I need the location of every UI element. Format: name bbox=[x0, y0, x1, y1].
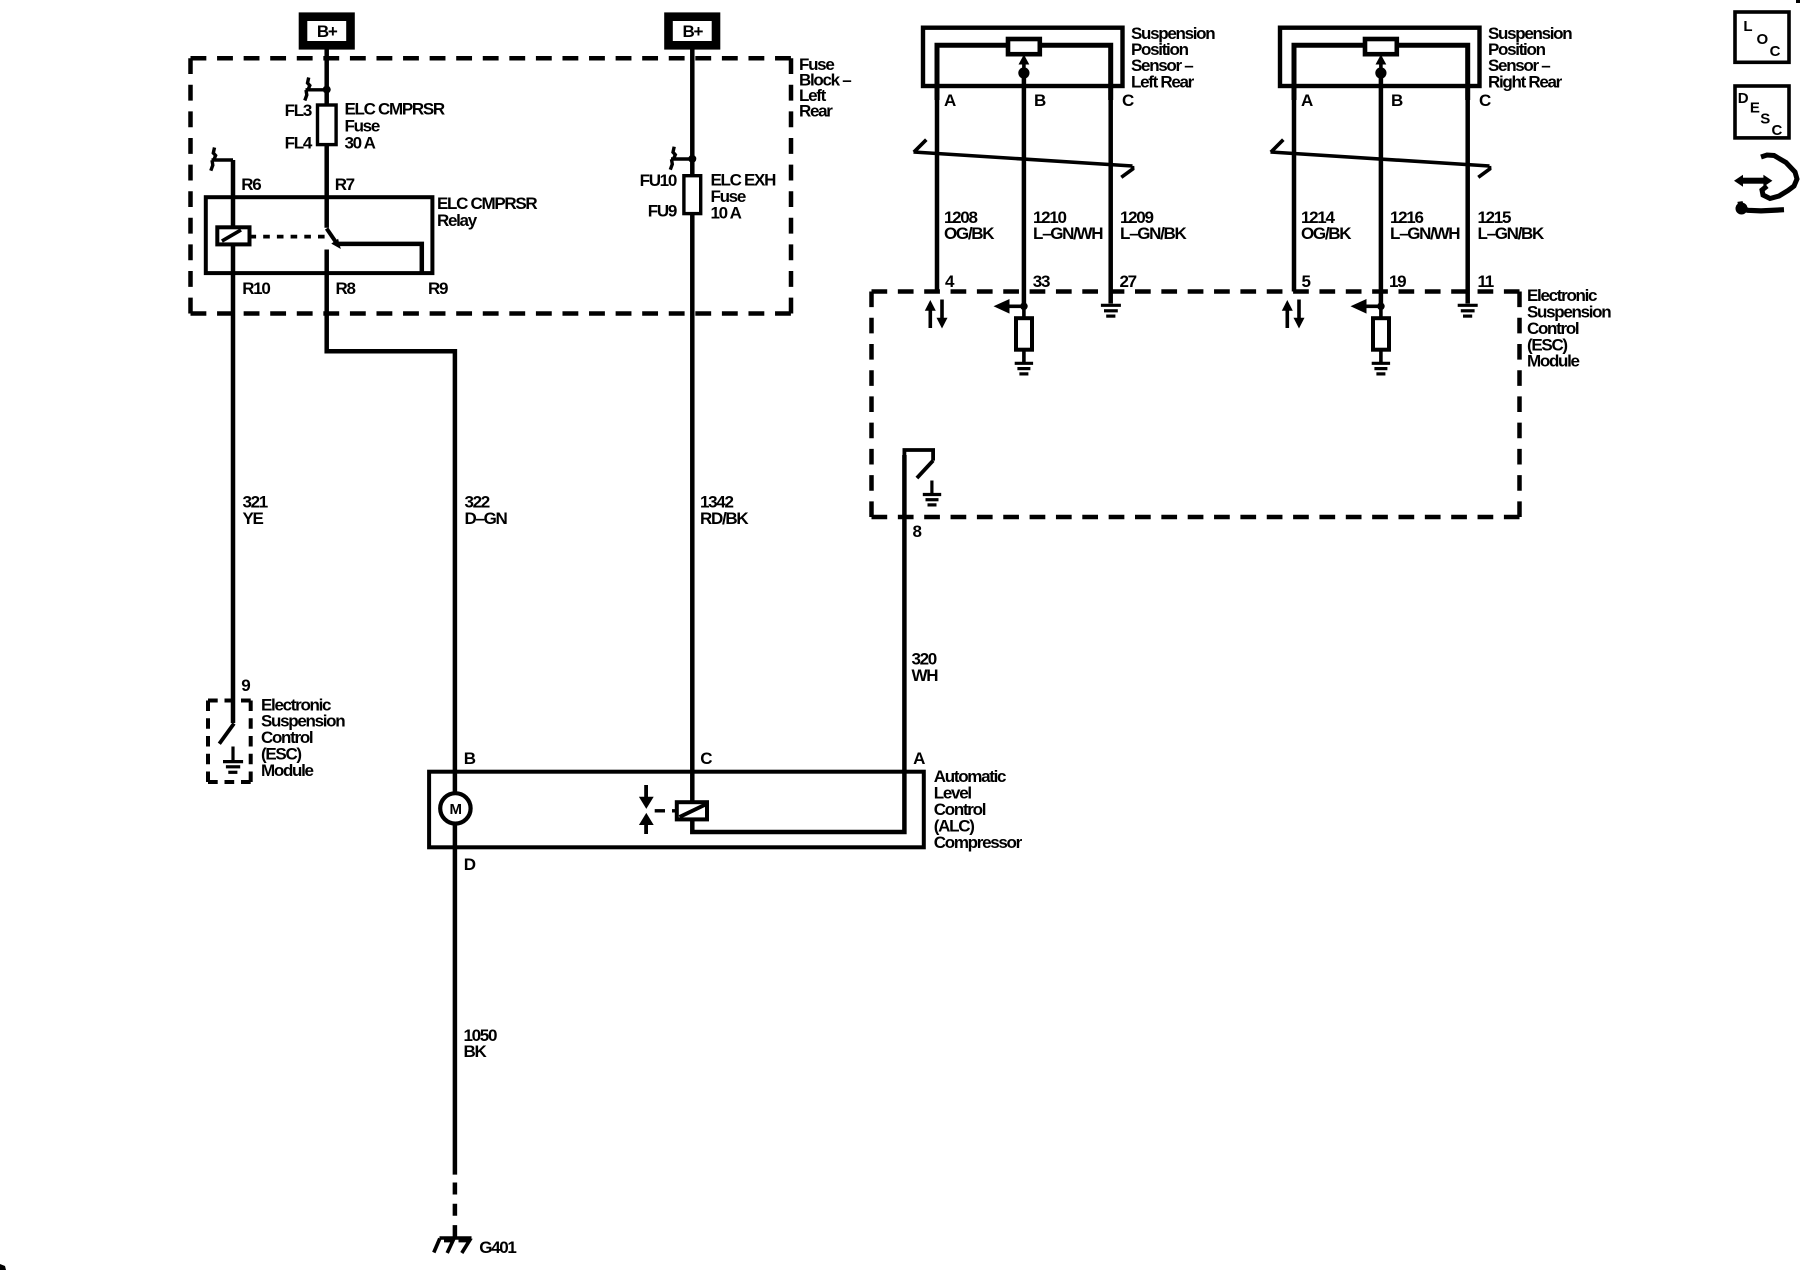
sensor LR wire C to pin 27 bbox=[1108, 86, 1113, 304]
power symbol B+ 1 bbox=[303, 17, 351, 46]
svg-text:D: D bbox=[1738, 90, 1749, 107]
wire ALC C to coil bbox=[690, 772, 695, 804]
wire label 320 WH bbox=[912, 649, 939, 684]
relay coil to switch dashed link bbox=[250, 235, 328, 239]
svg-text:BK: BK bbox=[464, 1042, 488, 1061]
ALC label bbox=[934, 767, 1023, 852]
svg-text:C: C bbox=[1772, 122, 1783, 139]
sensor RR label bbox=[1488, 24, 1572, 91]
sensor RR wire C to pin 11 bbox=[1465, 86, 1470, 304]
wire R6 into relay coil bbox=[231, 160, 236, 227]
wire label 1342 RD/BK bbox=[700, 492, 749, 527]
relay ELC CMPRSR box bbox=[206, 197, 433, 273]
wire R10 down to ESC module pin 9 bbox=[231, 273, 236, 723]
svg-text:Compressor: Compressor bbox=[934, 833, 1023, 852]
sensor RR wiper box bbox=[1365, 39, 1397, 54]
inline connector hook at FU10 feed bbox=[670, 147, 692, 170]
sensors and ESC module drawn in group 2 bbox=[872, 24, 1612, 772]
ground at ESC switch bbox=[923, 481, 941, 505]
corner speck bottom left bbox=[0, 1264, 6, 1270]
sensor LR wiper box bbox=[1008, 39, 1040, 54]
svg-text:RD/BK: RD/BK bbox=[700, 509, 749, 528]
svg-text:A: A bbox=[1301, 91, 1313, 110]
svg-text:C: C bbox=[1770, 43, 1781, 60]
svg-text:WH: WH bbox=[912, 666, 939, 685]
right margin icons bbox=[1734, 12, 1797, 215]
svg-text:YE: YE bbox=[243, 509, 264, 528]
pin numbers 5 19 11 bbox=[1302, 272, 1494, 291]
svg-text:L–GN/WH: L–GN/WH bbox=[1390, 224, 1460, 243]
fuse FU10/FU9 labels bbox=[640, 171, 776, 223]
svg-text:R10: R10 bbox=[242, 279, 270, 298]
svg-text:C: C bbox=[1122, 91, 1134, 110]
wire B+2 to fuse FU10 bbox=[690, 45, 695, 176]
sensor RR wire B to pin 19 bbox=[1379, 73, 1384, 307]
dashed wire to G401 bbox=[453, 1183, 458, 1237]
relay label bbox=[437, 194, 537, 230]
svg-text:O: O bbox=[1757, 31, 1769, 48]
LOC icon box bbox=[1735, 12, 1789, 62]
svg-text:FU9: FU9 bbox=[648, 202, 677, 221]
svg-text:L: L bbox=[1743, 18, 1752, 35]
relay switch output to R9 bbox=[339, 244, 422, 273]
solenoid valve symbol bbox=[639, 785, 654, 834]
wire label 321 YE bbox=[243, 492, 268, 527]
svg-text:Module: Module bbox=[1527, 352, 1580, 371]
svg-text:L–GN/BK: L–GN/BK bbox=[1478, 224, 1546, 243]
suspension position sensor right rear box bbox=[1280, 28, 1480, 86]
junction dot FL3 feed bbox=[323, 86, 331, 94]
svg-text:R6: R6 bbox=[241, 175, 261, 194]
wire B+1 to fuse FL3 bbox=[324, 45, 329, 104]
svg-text:11: 11 bbox=[1478, 272, 1494, 291]
ground pin 11 bbox=[1458, 305, 1478, 316]
relay switch blade bbox=[327, 229, 337, 244]
svg-text:D–GN: D–GN bbox=[465, 509, 508, 528]
wire R8 down with jog to ALC B bbox=[327, 250, 455, 772]
svg-text:R8: R8 bbox=[336, 279, 356, 298]
relay terminal labels bbox=[241, 175, 448, 298]
svg-text:S: S bbox=[1760, 111, 1770, 128]
wire FU9 down to ALC C bbox=[690, 214, 695, 772]
ground pin 27 bbox=[1101, 305, 1121, 316]
wire ALC B to motor bbox=[453, 772, 458, 794]
motor M bbox=[440, 793, 470, 823]
sensor LR wiper arrow bbox=[1018, 55, 1029, 79]
sensor LR terminal labels A B C bbox=[944, 91, 1134, 110]
ESC internal switch pin 8 bbox=[904, 450, 933, 478]
wire label 322 D-GN bbox=[465, 492, 508, 527]
svg-text:OG/BK: OG/BK bbox=[1301, 224, 1352, 243]
sensor RR wiper arrow bbox=[1375, 55, 1386, 79]
sensor RR wire A to pin 5 bbox=[1292, 86, 1297, 292]
svg-text:M: M bbox=[450, 801, 462, 818]
suspension position sensor left rear box bbox=[923, 28, 1123, 86]
wire ALC A to coil bottom bbox=[692, 772, 904, 832]
ESC module (pin 9) dashed box bbox=[208, 701, 251, 783]
svg-text:L–GN/WH: L–GN/WH bbox=[1033, 224, 1103, 243]
lower-left ESC module and ALC compressor bbox=[208, 676, 1023, 1257]
fuse block label bbox=[799, 55, 851, 120]
fuse FU10/FU9 bbox=[684, 176, 701, 214]
ALC solenoid coil bbox=[677, 802, 707, 819]
relay switch blade arrowhead bbox=[331, 239, 341, 249]
svg-text:10 A: 10 A bbox=[711, 204, 742, 223]
svg-text:FL4: FL4 bbox=[285, 134, 313, 153]
wire label 1050 BK bbox=[464, 1026, 497, 1061]
sensor RR resistor track bbox=[1294, 45, 1468, 100]
junction dot FU10 feed bbox=[688, 155, 696, 163]
bidirectional signal arrows pin 4 bbox=[925, 300, 948, 329]
svg-text:A: A bbox=[944, 91, 956, 110]
ESC module label bbox=[1527, 286, 1611, 371]
svg-text:L–GN/BK: L–GN/BK bbox=[1120, 224, 1188, 243]
sensor LR wire labels bbox=[944, 208, 1188, 243]
svg-text:C: C bbox=[700, 749, 712, 768]
svg-text:B+: B+ bbox=[682, 22, 703, 41]
ground at ESC pin 9 bbox=[223, 747, 243, 773]
ESC module (pin 9) label bbox=[261, 695, 345, 780]
svg-text:33: 33 bbox=[1033, 272, 1050, 291]
sensor LR resistor track bbox=[937, 45, 1111, 100]
svg-text:G401: G401 bbox=[479, 1238, 516, 1257]
svg-text:OG/BK: OG/BK bbox=[944, 224, 995, 243]
svg-text:B: B bbox=[1391, 91, 1403, 110]
svg-text:C: C bbox=[1479, 91, 1491, 110]
svg-text:5: 5 bbox=[1302, 272, 1311, 291]
ALC compressor box bbox=[429, 772, 924, 848]
sensor RR wire labels bbox=[1301, 208, 1545, 243]
sensor RR terminal labels A B C bbox=[1301, 91, 1491, 110]
wire pin 8 down to ALC A bbox=[902, 455, 907, 772]
signal arrow + pull-up resistor pin 33 bbox=[994, 299, 1033, 362]
pin numbers 4 33 27 bbox=[945, 272, 1137, 291]
bidirectional signal arrows pin 5 bbox=[1282, 300, 1305, 329]
ALC terminal labels bbox=[464, 749, 925, 874]
wire fuse FL4 to relay R7 bbox=[324, 145, 329, 228]
svg-text:Relay: Relay bbox=[437, 211, 478, 230]
power symbol B+ 2 bbox=[669, 17, 717, 46]
ground below resistor pin 19 bbox=[1372, 363, 1390, 374]
svg-text:B: B bbox=[464, 749, 476, 768]
ground G401 bbox=[434, 1238, 472, 1253]
DESC icon box bbox=[1735, 86, 1789, 139]
svg-text:D: D bbox=[464, 855, 476, 874]
wire motor to D and ground feed bbox=[453, 823, 458, 1174]
svg-text:9: 9 bbox=[241, 676, 250, 695]
svg-text:30 A: 30 A bbox=[345, 134, 376, 153]
harness crossing slash left bbox=[914, 140, 1133, 178]
inline connector hook at FL3 feed bbox=[305, 78, 327, 101]
ESC pin 9 switch blade bbox=[219, 724, 234, 744]
sensor LR label bbox=[1131, 24, 1215, 91]
svg-text:Rear: Rear bbox=[799, 101, 833, 120]
sensor LR wire B to pin 33 bbox=[1022, 73, 1027, 307]
svg-text:Right Rear: Right Rear bbox=[1488, 72, 1563, 91]
sensor LR wire A to pin 4 bbox=[935, 86, 940, 292]
ground below resistor pin 33 bbox=[1015, 363, 1033, 374]
fuse block dashed box bbox=[191, 58, 792, 313]
svg-text:Module: Module bbox=[261, 761, 314, 780]
svg-text:B+: B+ bbox=[317, 22, 338, 41]
signal arrow + pull-up resistor pin 19 bbox=[1351, 299, 1390, 362]
valve link dashes bbox=[655, 809, 677, 812]
wire R6 coil bottom to R10 bbox=[231, 244, 236, 273]
svg-text:E: E bbox=[1750, 99, 1760, 116]
svg-text:A: A bbox=[913, 749, 925, 768]
svg-text:19: 19 bbox=[1389, 272, 1406, 291]
svg-text:Left Rear: Left Rear bbox=[1131, 72, 1195, 91]
svg-text:B: B bbox=[1034, 91, 1046, 110]
svg-text:27: 27 bbox=[1120, 272, 1137, 291]
svg-text:FL3: FL3 bbox=[285, 101, 312, 120]
fuse FL3/FL4 bbox=[318, 105, 337, 145]
svg-text:FU10: FU10 bbox=[640, 171, 677, 190]
svg-text:8: 8 bbox=[913, 522, 922, 541]
fuse FL3/FL4 labels bbox=[285, 99, 445, 152]
ESC module dashed box bbox=[872, 292, 1520, 518]
svg-text:R9: R9 bbox=[428, 279, 448, 298]
inline connector hook at R6 bbox=[211, 148, 233, 171]
harness crossing slash right bbox=[1271, 140, 1490, 178]
pointer icon bbox=[1734, 155, 1797, 215]
svg-text:R7: R7 bbox=[335, 175, 355, 194]
relay coil bbox=[217, 227, 249, 244]
corner speck top right bbox=[1796, 0, 1800, 3]
